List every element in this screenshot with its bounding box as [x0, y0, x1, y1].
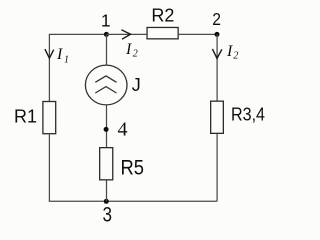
svg-text:I: I	[125, 41, 132, 58]
wire	[106, 105, 108, 148]
svg-text:2: 2	[212, 9, 221, 29]
svg-text:2: 2	[133, 49, 138, 60]
wire	[106, 34, 108, 65]
wire	[48, 34, 50, 101]
svg-text:2: 2	[233, 51, 238, 62]
svg-text:R3,4: R3,4	[231, 105, 265, 125]
wire	[179, 33, 217, 35]
svg-text:3: 3	[103, 203, 113, 227]
svg-text:1: 1	[101, 11, 111, 31]
node 4	[104, 119, 128, 141]
resistor R3,4	[211, 101, 265, 133]
wire	[49, 33, 107, 35]
node 2	[212, 9, 221, 37]
wire	[49, 200, 217, 202]
current source J	[85, 65, 140, 105]
wire	[48, 134, 50, 201]
current arrow I2	[212, 43, 238, 62]
node 1	[101, 11, 111, 37]
current arrow I1	[45, 46, 69, 65]
wire	[107, 33, 147, 35]
svg-text:1: 1	[64, 54, 69, 65]
svg-text:I: I	[56, 46, 63, 63]
resistor R5	[100, 148, 144, 180]
svg-text:I: I	[226, 43, 233, 60]
svg-text:R5: R5	[121, 156, 145, 180]
resistor R1	[14, 102, 56, 134]
wire	[216, 134, 218, 201]
svg-text:R2: R2	[151, 5, 174, 26]
resistor R2	[147, 5, 178, 39]
wire	[106, 181, 108, 202]
wire	[216, 34, 218, 100]
node 3	[103, 199, 113, 227]
svg-text:4: 4	[118, 119, 128, 141]
current arrow I2	[121, 30, 137, 60]
svg-text:J: J	[132, 75, 141, 95]
svg-text:R1: R1	[14, 105, 37, 126]
